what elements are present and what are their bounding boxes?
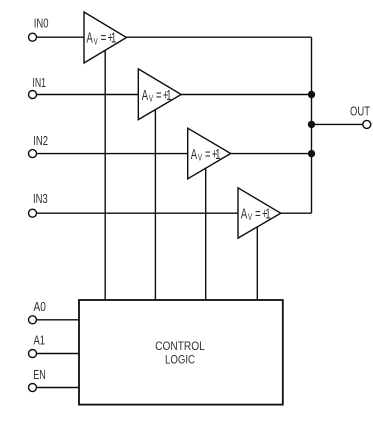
input terminal EN: [29, 384, 37, 392]
control logic block: [79, 300, 283, 405]
wire U3 output to output bus: [231, 153, 312, 155]
svg-text:AV=+1: AV=+1: [191, 146, 221, 163]
junction dot bus/OUT: [308, 121, 315, 128]
svg-text:IN1: IN1: [32, 75, 46, 90]
output terminal OUT: [363, 120, 371, 128]
wire U2 output to output bus: [181, 94, 311, 96]
input terminal IN1: [29, 91, 37, 99]
wire EN to control logic: [37, 387, 80, 389]
svg-text:A1: A1: [34, 332, 46, 347]
svg-text:EN: EN: [33, 367, 46, 382]
svg-text:AV=+1: AV=+1: [241, 205, 271, 222]
wire A0 to control logic: [37, 319, 80, 321]
wire U1 enable to control logic: [104, 50, 106, 300]
svg-text:LOGIC: LOGIC: [165, 355, 195, 367]
wire U2 enable to control logic: [154, 110, 156, 300]
input terminal A1: [29, 350, 37, 358]
op-amp buffer U3: [188, 128, 231, 179]
wire U1 output to output bus: [127, 36, 312, 38]
wire IN1 to buffer U2 input: [37, 94, 139, 96]
svg-text:AV=+1: AV=+1: [87, 30, 117, 47]
wire U3 enable to control logic: [205, 168, 207, 300]
svg-text:IN0: IN0: [34, 16, 49, 31]
wire output bus to OUT terminal: [312, 123, 363, 125]
wire IN0 to buffer U1 input: [37, 36, 85, 38]
value label AV = +1 for U1: [87, 30, 117, 47]
op-amp buffer U2: [138, 69, 181, 120]
value label AV = +1 for U3: [191, 146, 221, 163]
wire U4 enable to control logic: [256, 227, 258, 300]
svg-text:CONTROL: CONTROL: [155, 341, 205, 353]
wire output bus vertical: [311, 37, 313, 213]
value label AV = +1 for U4: [241, 205, 271, 222]
input terminal A0: [29, 316, 37, 324]
input terminal IN2: [29, 150, 37, 158]
wire A1 to control logic: [37, 353, 80, 355]
input terminal IN0: [29, 33, 37, 41]
junction dot bus/U2 output: [308, 91, 315, 98]
svg-text:OUT: OUT: [350, 104, 370, 119]
junction dot bus/U3 output: [308, 150, 315, 157]
input terminal IN3: [29, 209, 37, 217]
svg-text:A0: A0: [34, 299, 46, 314]
svg-text:IN3: IN3: [33, 191, 48, 206]
value label AV = +1 for U2: [142, 87, 172, 104]
wire U4 output to output bus: [281, 212, 312, 214]
op-amp buffer U1: [84, 12, 127, 63]
wire IN2 to buffer U3 input: [37, 153, 188, 155]
svg-text:IN2: IN2: [33, 133, 48, 148]
svg-text:AV=+1: AV=+1: [142, 87, 172, 104]
wire IN3 to buffer U4 input: [37, 212, 239, 214]
op-amp buffer U4: [238, 188, 281, 238]
